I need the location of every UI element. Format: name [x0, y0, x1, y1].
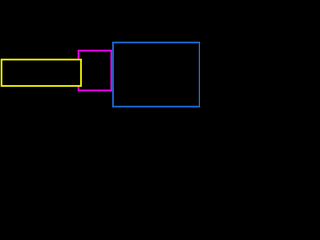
yellow rectangle [2, 60, 82, 86]
blue rectangle [113, 43, 200, 107]
magenta rectangle [79, 51, 112, 91]
